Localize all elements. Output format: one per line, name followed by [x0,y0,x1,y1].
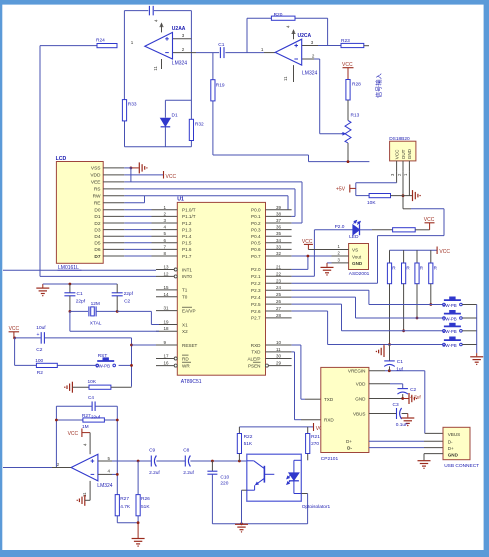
svg-text:GND: GND [407,148,412,159]
svg-text:P1.4: P1.4 [182,234,192,239]
svg-text:D0: D0 [94,208,100,214]
svg-text:D6: D6 [94,247,100,253]
svg-text:13: 13 [164,265,170,270]
svg-text:ASD2001: ASD2001 [349,271,370,277]
svg-text:D2: D2 [94,221,100,227]
svg-text:R24: R24 [96,38,105,44]
svg-text:+5V: +5V [336,186,346,192]
svg-text:12: 12 [164,271,170,276]
svg-text:P0.5: P0.5 [251,241,261,246]
svg-text:38: 38 [276,211,282,216]
svg-text:VCC: VCC [9,326,20,332]
svg-text:39: 39 [276,205,282,210]
svg-text:VCC: VCC [439,249,450,255]
svg-text:U2CA: U2CA [298,33,312,39]
svg-text:Vout: Vout [352,254,362,259]
svg-text:10K: 10K [88,379,97,385]
svg-text:28: 28 [276,313,282,318]
svg-text:U1: U1 [177,197,184,203]
svg-text:USB CONNECT: USB CONNECT [444,463,479,469]
svg-text:12M: 12M [91,301,100,307]
svg-text:P0.1: P0.1 [251,214,261,219]
svg-text:15: 15 [164,285,170,290]
svg-text:TXD: TXD [251,350,261,355]
svg-text:SW-PB: SW-PB [96,364,110,369]
svg-text:X1: X1 [182,322,188,327]
svg-text:CP2101: CP2101 [321,456,339,462]
svg-text:D1: D1 [94,214,100,220]
svg-text:EA/VP: EA/VP [182,308,196,313]
svg-text:RE: RE [94,201,101,207]
svg-text:XTAL: XTAL [90,320,102,326]
svg-text:32: 32 [276,251,282,256]
svg-text:51K: 51K [141,504,150,510]
svg-text:RS: RS [94,187,101,193]
svg-text:C3: C3 [393,402,399,408]
svg-text:D4: D4 [94,234,100,240]
svg-text:2.2uf: 2.2uf [149,470,160,476]
svg-text:P1.6: P1.6 [182,247,192,252]
svg-text:16: 16 [164,361,170,366]
svg-text:P2.2: P2.2 [251,281,261,286]
svg-text:23: 23 [276,278,282,283]
svg-text:D+: D+ [448,446,454,451]
svg-text:P0.3: P0.3 [251,227,261,232]
svg-text:RD: RD [182,356,189,361]
svg-text:19: 19 [164,320,170,325]
svg-text:R19: R19 [216,83,225,89]
svg-text:R2: R2 [37,370,43,376]
svg-text:C8: C8 [183,447,189,453]
svg-text:P1.2: P1.2 [182,221,192,226]
svg-text:R22: R22 [244,434,253,440]
svg-text:22uf: 22uf [91,415,101,420]
svg-text:22pf: 22pf [76,299,86,305]
svg-text:RESET: RESET [182,343,198,348]
svg-text:R26: R26 [141,496,150,502]
svg-text:C4: C4 [88,395,94,400]
svg-text:LM324: LM324 [172,60,188,66]
svg-text:26: 26 [276,299,282,304]
svg-text:GND: GND [355,396,366,401]
svg-text:LED: LED [349,234,359,240]
svg-text:PSEN: PSEN [248,363,261,368]
svg-text:C2: C2 [124,299,130,305]
svg-text:C10: C10 [220,474,229,480]
svg-text:RW: RW [93,194,101,200]
svg-text:D+: D+ [346,439,352,444]
svg-text:10uf: 10uf [36,325,46,331]
svg-text:30: 30 [276,354,282,359]
svg-text:35: 35 [276,231,282,236]
svg-text:T1: T1 [182,288,188,293]
svg-text:RXD: RXD [251,343,261,348]
svg-text:AT89C51: AT89C51 [181,379,202,385]
svg-text:270: 270 [311,441,319,447]
svg-text:VCC: VCC [166,174,177,180]
svg-text:27: 27 [276,306,282,311]
svg-text:P2.4: P2.4 [251,295,261,300]
svg-text:VCC: VCC [424,217,435,223]
svg-text:Optoisolator1: Optoisolator1 [302,504,331,510]
svg-text:INT0: INT0 [182,274,192,279]
svg-text:R21: R21 [311,434,320,440]
svg-text:VEE: VEE [91,180,101,186]
svg-text:1uf: 1uf [396,367,403,373]
svg-text:31: 31 [164,306,170,311]
svg-text:24: 24 [276,285,282,290]
svg-text:220: 220 [220,481,228,487]
svg-text:P0.4: P0.4 [251,234,261,239]
svg-text:36: 36 [276,225,282,230]
svg-text:4.7K: 4.7K [120,504,131,510]
svg-text:P1.0/T: P1.0/T [182,208,196,213]
svg-text:11: 11 [283,76,288,81]
svg-text:VDD: VDD [90,173,101,179]
svg-text:P0.0: P0.0 [251,208,261,213]
svg-text:VSS: VSS [91,166,101,172]
svg-text:TXD: TXD [324,397,334,402]
svg-text:37: 37 [276,218,282,223]
svg-text:VCC: VCC [68,431,79,437]
svg-text:VCC: VCC [394,149,399,159]
svg-text:25: 25 [276,292,282,297]
svg-text:10: 10 [276,340,282,345]
svg-text:P0.6: P0.6 [251,247,261,252]
svg-text:R28: R28 [352,81,361,87]
svg-text:LM324: LM324 [97,483,113,489]
svg-text:VREGIN: VREGIN [348,369,366,374]
svg-text:P2.1: P2.1 [251,274,261,279]
svg-text:D7: D7 [94,254,100,260]
svg-text:22: 22 [276,271,282,276]
svg-text:R13: R13 [351,113,360,119]
svg-text:10K: 10K [367,200,376,206]
svg-text:C1: C1 [77,291,83,297]
svg-text:U2AA: U2AA [172,26,186,32]
svg-text:+: + [37,332,40,338]
svg-text:VBUS: VBUS [353,411,366,416]
svg-text:SW-PB: SW-PB [442,316,456,321]
svg-text:RXD: RXD [324,418,334,423]
svg-text:SW-PB: SW-PB [442,303,456,308]
svg-text:SW-PB: SW-PB [442,329,456,334]
svg-text:C9: C9 [149,447,155,453]
svg-text:21: 21 [276,264,282,269]
svg-text:51K: 51K [244,441,253,447]
svg-text:D-: D- [448,440,453,445]
svg-text:R20: R20 [274,12,283,18]
svg-text:P2.0: P2.0 [251,267,261,272]
svg-text:P2.0: P2.0 [335,224,345,230]
svg-text:P2.5: P2.5 [251,302,261,307]
svg-text:100: 100 [35,358,43,364]
svg-text:34: 34 [276,238,282,243]
svg-text:P1.1/T: P1.1/T [182,214,196,219]
svg-text:22pf: 22pf [124,291,134,297]
svg-text:14: 14 [164,292,170,297]
svg-text:GND: GND [448,453,459,458]
svg-text:信号输入: 信号输入 [375,73,383,98]
svg-text:OUT: OUT [401,149,406,159]
svg-text:P0.7: P0.7 [251,254,261,259]
svg-text:LCD: LCD [56,156,67,162]
svg-text:17: 17 [164,354,170,359]
svg-text:INT1: INT1 [182,267,192,272]
svg-text:SW-PB: SW-PB [442,343,456,348]
svg-text:R27: R27 [82,413,91,419]
svg-text:R23: R23 [341,38,350,44]
svg-text:29: 29 [276,361,282,366]
svg-text:2.2uf: 2.2uf [183,470,194,476]
svg-text:D3: D3 [94,227,100,233]
svg-text:VS: VS [352,248,358,253]
svg-text:33: 33 [276,244,282,249]
svg-text:P2.3: P2.3 [251,288,261,293]
svg-text:C2: C2 [410,387,416,393]
svg-text:11: 11 [276,347,281,352]
svg-text:D1: D1 [172,113,178,119]
svg-text:VCC: VCC [342,62,353,68]
svg-text:D5: D5 [94,241,100,247]
svg-text:0.1uF: 0.1uF [396,422,408,428]
svg-text:R33: R33 [128,102,137,108]
svg-text:C1: C1 [397,359,403,365]
svg-text:P1.5: P1.5 [182,241,192,246]
svg-text:P2.6: P2.6 [251,309,261,314]
svg-text:VBUS: VBUS [448,432,461,437]
svg-text:P1.7: P1.7 [182,254,192,259]
svg-text:T0: T0 [182,295,188,300]
svg-text:P1.3: P1.3 [182,227,192,232]
svg-text:R32: R32 [195,122,204,128]
svg-text:1M: 1M [82,424,89,430]
svg-text:R27: R27 [120,496,129,502]
svg-text:WR: WR [182,363,190,368]
svg-text:18: 18 [164,326,170,331]
svg-text:D-: D- [347,446,352,451]
svg-text:P0.2: P0.2 [251,221,261,226]
svg-text:11: 11 [153,66,158,71]
svg-text:GND: GND [352,261,363,266]
svg-text:LM324: LM324 [302,70,318,76]
svg-text:C1: C1 [218,42,224,48]
svg-text:ALE/P: ALE/P [247,356,260,361]
svg-text:DS18B20: DS18B20 [389,136,410,142]
svg-text:P2.7: P2.7 [251,316,261,321]
svg-text:C2: C2 [36,347,42,353]
svg-text:VDD: VDD [356,382,366,387]
svg-text:X2: X2 [182,329,188,334]
